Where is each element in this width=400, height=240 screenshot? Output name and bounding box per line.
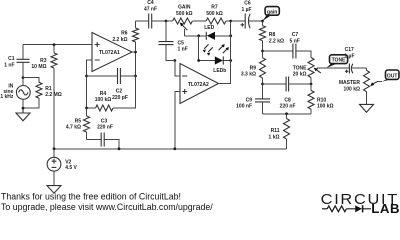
svg-text:TONE: TONE: [293, 65, 307, 71]
svg-text:1 kΩ: 1 kΩ: [269, 134, 280, 140]
wire LED row: [185, 35, 231, 37]
logo resistor-diode glyph: [322, 205, 371, 212]
wire ground bus: [54, 148, 287, 150]
svg-text:220 pF: 220 pF: [112, 95, 128, 101]
svg-text:LAB: LAB: [371, 201, 400, 213]
resistor R11: [284, 114, 290, 149]
svg-text:1 nF: 1 nF: [4, 63, 14, 69]
svg-text:R6: R6: [121, 31, 128, 37]
node dot bus V2: [53, 147, 56, 150]
node dot C1/V1/R1: [22, 76, 25, 79]
diode LED: [206, 32, 215, 40]
svg-text:R11: R11: [271, 128, 280, 134]
wire U1 output column: [132, 52, 136, 76]
node dot N mid: [229, 34, 232, 37]
svg-text:TL072A2: TL072A2: [188, 82, 209, 88]
wire M column: [198, 36, 200, 61]
capacitor C8: [263, 77, 312, 92]
svg-text:LED: LED: [204, 25, 214, 31]
op-amp U2 TL072A2: [180, 64, 219, 104]
capacitor C6 polarized: [231, 14, 263, 29]
resistor R5: [84, 108, 90, 140]
svg-text:220 nF: 220 nF: [97, 125, 113, 131]
svg-text:500 kΩ: 500 kΩ: [176, 11, 193, 17]
node dot R4/R5: [85, 107, 88, 110]
svg-text:47 nF: 47 nF: [144, 6, 157, 12]
svg-text:C17: C17: [345, 47, 354, 53]
diode LEDb: [215, 56, 224, 64]
svg-text:1 µF: 1 µF: [344, 54, 354, 60]
voltage source V2: [47, 149, 61, 186]
svg-text:LEDb: LEDb: [213, 68, 226, 74]
svg-text:10 MΩ: 10 MΩ: [31, 64, 46, 70]
svg-text:R7: R7: [211, 5, 218, 11]
op-amp U1 TL072A1: [92, 33, 132, 72]
svg-text:500 kΩ: 500 kΩ: [206, 11, 223, 17]
flag gain: [263, 7, 280, 21]
potentiometer TONE: [308, 58, 349, 85]
svg-text:R9: R9: [250, 65, 257, 71]
resistor R9: [260, 51, 266, 84]
wire N column: [230, 21, 232, 84]
svg-text:gain: gain: [267, 9, 277, 15]
voltage source V1 IN sine: [16, 78, 30, 109]
resistor R6: [133, 21, 139, 52]
node dot fb left: [85, 75, 88, 78]
svg-text:C4: C4: [147, 0, 154, 6]
capacitor C2 feedback: [87, 68, 136, 84]
flag TONE: [326, 55, 347, 68]
resistor R7: [206, 18, 231, 24]
ground V2: [47, 186, 61, 194]
svg-text:4.5 V: 4.5 V: [65, 165, 77, 171]
node dot V1-/R1/gnd: [22, 107, 25, 110]
svg-text:C6: C6: [244, 1, 251, 7]
svg-text:2.2 kΩ: 2.2 kΩ: [112, 37, 127, 43]
svg-text:C8: C8: [284, 97, 291, 103]
wire U2 minus input: [175, 61, 180, 77]
capacitor C7: [263, 44, 312, 59]
capacitor C17 polarized: [345, 64, 367, 74]
svg-text:5 nF: 5 nF: [290, 38, 300, 44]
node dot out2 row: [261, 83, 264, 86]
node dot bus C3: [118, 147, 121, 150]
ground input: [16, 108, 30, 121]
node dot fb right: [134, 75, 137, 78]
wire U2 output: [219, 83, 231, 86]
node dot gain: [261, 20, 264, 23]
wire row4: [263, 113, 312, 115]
wire LEDb row: [199, 60, 231, 62]
svg-text:GAIN: GAIN: [178, 5, 191, 11]
svg-text:MASTER: MASTER: [339, 80, 361, 86]
wire U2 plus input: [175, 92, 180, 149]
node dot U1 out: [134, 51, 137, 54]
svg-text:20 kΩ: 20 kΩ: [293, 72, 307, 78]
potentiometer GAIN: [166, 18, 206, 36]
resistor R8: [260, 21, 266, 51]
svg-text:100 kΩ: 100 kΩ: [95, 97, 112, 103]
node dot minus/C5: [173, 59, 176, 62]
svg-text:2.2 MΩ: 2.2 MΩ: [45, 92, 62, 98]
potentiometer MASTER: [364, 68, 382, 104]
node dot A C4/C5/GAIN: [165, 20, 168, 23]
svg-text:C7: C7: [292, 32, 299, 38]
svg-text:220 nF: 220 nF: [280, 104, 296, 110]
capacitor C5: [159, 21, 175, 61]
resistor R4: [87, 76, 136, 111]
ground MASTER: [360, 104, 374, 112]
svg-text:1 µF: 1 µF: [241, 7, 251, 13]
node dot bus U2+: [173, 147, 176, 150]
svg-text:C9: C9: [246, 97, 253, 103]
svg-text:2.2 kΩ: 2.2 kΩ: [269, 38, 284, 44]
resistor R10: [308, 84, 314, 114]
capacitor C1: [17, 45, 30, 78]
capacitor C3: [87, 133, 120, 149]
svg-text:100 nF: 100 nF: [236, 104, 252, 110]
capacitor C9: [255, 84, 270, 114]
node dot N LEDb: [229, 59, 232, 62]
svg-text:To upgrade, please visit www.C: To upgrade, please visit www.CircuitLab.…: [1, 202, 213, 212]
svg-text:C3: C3: [101, 118, 108, 124]
svg-text:100 kΩ: 100 kΩ: [317, 104, 334, 110]
node dot M bottom: [197, 59, 200, 62]
svg-text:R4: R4: [100, 91, 107, 97]
wire top rail input node: [23, 44, 92, 46]
svg-text:R10: R10: [317, 97, 326, 103]
svg-text:1 nF: 1 nF: [178, 46, 188, 52]
capacitor C4: [136, 14, 167, 29]
node dot tone bottom: [310, 83, 313, 86]
node dot M top: [197, 34, 200, 37]
svg-text:OUT: OUT: [387, 73, 398, 79]
svg-text:Thanks for using the free edit: Thanks for using the free edition of Cir…: [1, 192, 181, 202]
svg-text:C1: C1: [8, 56, 15, 62]
resistor R1: [23, 78, 42, 109]
svg-text:R1: R1: [45, 86, 52, 92]
svg-text:R5: R5: [75, 118, 82, 124]
svg-text:R8: R8: [269, 32, 276, 38]
svg-text:100 kΩ: 100 kΩ: [343, 86, 360, 92]
node dot R11 top: [285, 112, 288, 115]
resistor R3: [51, 45, 57, 149]
svg-text:4.7 kΩ: 4.7 kΩ: [66, 125, 81, 131]
svg-text:C2: C2: [116, 88, 123, 94]
flag OUT: [382, 70, 399, 82]
node dot R8/R9/C7: [261, 50, 264, 53]
svg-text:3.3 kΩ: 3.3 kΩ: [241, 72, 256, 78]
svg-text:TL072A1: TL072A1: [99, 50, 120, 56]
node dot rail/R3: [53, 43, 56, 46]
LED emission arrows: [203, 44, 229, 56]
wire U1 minus input: [87, 60, 93, 76]
node dot N top: [229, 20, 232, 23]
svg-text:1 kHz: 1 kHz: [0, 94, 14, 100]
svg-text:R3: R3: [40, 58, 47, 64]
